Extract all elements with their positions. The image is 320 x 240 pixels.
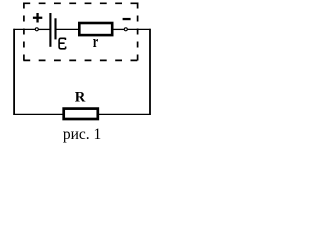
- terminal node positive (open circle): [35, 28, 38, 31]
- terminal node negative (open circle): [124, 28, 127, 31]
- dashed box right edge: [137, 3, 139, 61]
- wire right vertical: [149, 29, 151, 115]
- wire bottom-left segment: [13, 113, 63, 115]
- svg-text:R: R: [75, 90, 86, 106]
- dashed box top edge (battery outline): [23, 2, 137, 4]
- minus sign label: [123, 18, 131, 20]
- svg-text:рис. 1: рис. 1: [63, 126, 101, 143]
- label EMF epsilon: [59, 38, 66, 49]
- wire top-right segment: [127, 28, 150, 30]
- wire resistor-r-to-minus-terminal segment: [113, 28, 125, 30]
- wire left vertical: [13, 29, 15, 115]
- wire circle-to-battery segment: [39, 28, 50, 30]
- resistor R (load) box: [64, 109, 98, 119]
- wire battery-to-resistor-r segment: [56, 28, 79, 30]
- dashed box left edge: [23, 3, 25, 61]
- wire top-left segment: [13, 28, 35, 30]
- svg-text:r: r: [93, 33, 99, 51]
- dashed box bottom edge: [23, 59, 137, 61]
- wire bottom-right segment: [99, 113, 151, 115]
- resistor r (internal resistance) box: [79, 23, 112, 35]
- battery cell: long plate: [49, 13, 51, 47]
- battery cell: short plate: [54, 18, 56, 39]
- plus sign label: [33, 13, 42, 23]
